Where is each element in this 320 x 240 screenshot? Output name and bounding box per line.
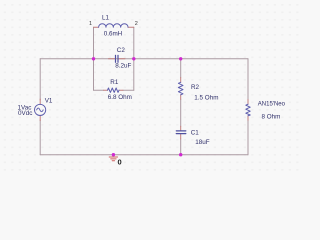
resistor R1 body: [108, 88, 120, 92]
wire left rail: [39, 59, 41, 100]
capacitor C1 pin stubs: [180, 126, 182, 130]
junction node B (block right): [132, 57, 135, 60]
resistor AN15'Neo pin stubs: [247, 100, 249, 105]
svg-text:6.8 Ohm: 6.8 Ohm: [108, 94, 132, 101]
capacitor C2 plates: [115, 55, 117, 62]
wire R1 branch left: [94, 89, 104, 91]
svg-text:2: 2: [135, 21, 138, 27]
svg-text:R2: R2: [191, 84, 200, 91]
wire bottom net: [40, 154, 248, 156]
resistor R2 pin stubs: [180, 78, 182, 83]
svg-text:0.6mH: 0.6mH: [104, 31, 123, 38]
svg-text:8.2uF: 8.2uF: [115, 62, 131, 69]
svg-text:C2: C2: [117, 47, 126, 54]
source V1 pin stubs: [39, 99, 41, 105]
svg-text:L1: L1: [102, 15, 110, 22]
resistor AN15'Neo body: [246, 104, 250, 116]
junction node A (block left): [92, 57, 95, 60]
inductor L1 pin stubs: [94, 26, 99, 28]
ground symbol bars: [109, 156, 117, 158]
svg-text:1.5 Ohm: 1.5 Ohm: [194, 95, 218, 102]
svg-text:8 Ohm: 8 Ohm: [262, 114, 281, 121]
inductor L1 body: [99, 24, 128, 27]
wire parallel-block right rail: [133, 27, 135, 90]
capacitor C1 plates: [176, 130, 186, 132]
capacitor C2 pin stubs: [109, 58, 115, 60]
wire right rail upper: [247, 59, 249, 100]
wire R2 branch upper: [180, 59, 182, 78]
source V1 sine: [37, 108, 44, 112]
source V1 circle: [35, 104, 46, 115]
wire R1 branch right: [123, 89, 134, 91]
background grid: [0, 0, 300, 171]
junction C1 bottom: [179, 153, 182, 156]
svg-text:18uF: 18uF: [195, 139, 210, 146]
resistor R2 body: [178, 82, 183, 95]
wire top horizontal net: [40, 58, 248, 60]
svg-text:1: 1: [89, 21, 92, 27]
wire right rail lower: [247, 120, 249, 154]
svg-text:0Vdc: 0Vdc: [18, 110, 32, 117]
svg-text:C1: C1: [191, 129, 200, 136]
wire R2-C1 middle: [180, 99, 182, 126]
junction R2 top: [179, 57, 182, 60]
svg-text:V1: V1: [45, 97, 53, 104]
svg-text:R1: R1: [110, 79, 119, 86]
junction ground: [112, 153, 115, 156]
svg-text:0: 0: [118, 158, 122, 167]
wire left rail lower: [39, 120, 41, 155]
svg-text:AN15'Neo: AN15'Neo: [258, 101, 286, 107]
wire C1 lower: [180, 139, 182, 155]
wire parallel-block left rail: [93, 27, 95, 90]
resistor R1 pin stubs: [104, 89, 108, 91]
